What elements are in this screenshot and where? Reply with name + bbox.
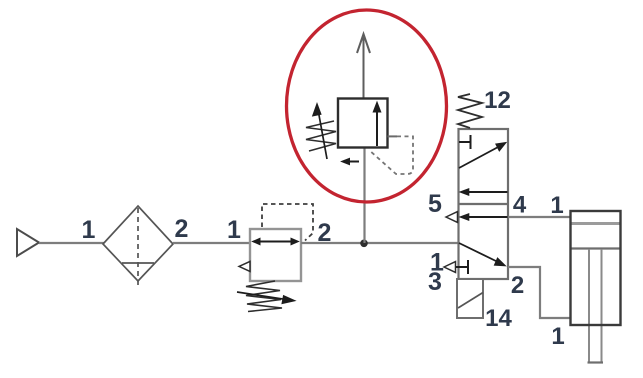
bottom box: arrow 1 to 2 bbox=[459, 243, 506, 266]
svg-text:1: 1 bbox=[550, 192, 563, 219]
top box: arrow 1 to 4 bbox=[459, 143, 506, 169]
bottom box: arrow 4 to 5 bbox=[460, 214, 508, 221]
relief valve pilot stub bbox=[388, 135, 398, 137]
relief valve spring bbox=[306, 121, 336, 151]
wire valve port 2 to cylinder bbox=[508, 267, 571, 318]
regulator flow arrow (double headed) bbox=[253, 238, 299, 244]
wire valve port 4 to cylinder bbox=[508, 216, 571, 218]
top box: blocked port 5 symbol bbox=[459, 135, 471, 149]
relief valve body bbox=[338, 99, 388, 148]
wire regulator to valve bbox=[301, 242, 459, 244]
regulator spring bbox=[246, 281, 282, 312]
bottom box: blocked port 3 symbol bbox=[456, 260, 469, 274]
5/2 valve box divider bbox=[459, 203, 509, 205]
filter F1 bbox=[103, 206, 173, 287]
svg-text:4: 4 bbox=[513, 192, 527, 219]
regulator relief triangle bbox=[239, 261, 250, 271]
junction node bbox=[360, 240, 368, 248]
regulator pilot dashed box bbox=[262, 204, 313, 241]
svg-text:3: 3 bbox=[428, 268, 442, 296]
pilot 14 diagonal bbox=[458, 293, 483, 309]
top box: arrow 2 to 3 bbox=[460, 189, 508, 196]
rod end cap bbox=[588, 361, 604, 363]
wire source to filter bbox=[39, 242, 104, 244]
svg-text:5: 5 bbox=[428, 190, 442, 218]
wire filter to regulator bbox=[173, 242, 250, 244]
svg-text:1: 1 bbox=[82, 216, 96, 244]
wire junction to relief valve bbox=[363, 147, 365, 243]
relief valve spring arrow bbox=[313, 104, 327, 160]
svg-text:14: 14 bbox=[485, 305, 512, 332]
5/2 valve body bbox=[459, 129, 509, 279]
svg-text:2: 2 bbox=[175, 215, 189, 243]
relief valve vent arrow below box bbox=[342, 158, 360, 164]
red highlight ellipse bbox=[287, 10, 447, 202]
pressure regulator body bbox=[250, 229, 301, 281]
relief valve exhaust line bbox=[363, 36, 365, 98]
cylinder barrel bbox=[571, 211, 621, 325]
relief valve pilot dashed line bbox=[369, 136, 413, 174]
pilot 14 box bbox=[457, 279, 483, 318]
svg-text:2: 2 bbox=[511, 272, 524, 299]
cylinder piston rod bbox=[589, 249, 602, 362]
cylinder piston line (upper) bbox=[571, 222, 620, 225]
exhaust triangle port 3 bbox=[444, 262, 456, 273]
regulator adjust arrow bbox=[237, 292, 295, 304]
svg-text:1: 1 bbox=[227, 216, 241, 244]
svg-text:12: 12 bbox=[484, 87, 511, 114]
relief valve exhaust arrowhead bbox=[357, 34, 370, 53]
cylinder piston line (lower) bbox=[571, 247, 620, 249]
compressed air source bbox=[17, 229, 39, 256]
svg-text:1: 1 bbox=[551, 323, 564, 350]
valve return spring bbox=[458, 94, 482, 128]
relief valve internal arrow bbox=[373, 102, 381, 146]
exhaust triangle port 5 bbox=[446, 212, 458, 223]
